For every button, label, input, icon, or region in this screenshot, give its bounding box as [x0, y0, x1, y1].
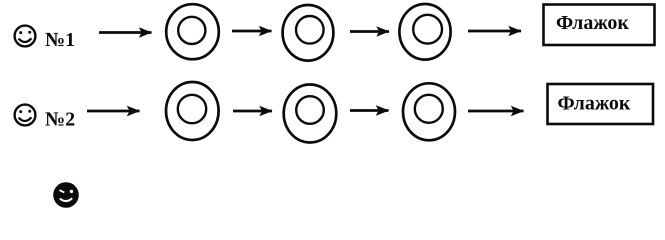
node circle row1 A: [166, 4, 219, 59]
wire arrow row2 b: [233, 110, 272, 113]
wire arrow row1 d: [468, 30, 521, 33]
wire arrow row1 c: [350, 30, 389, 33]
svg-text:Флажок: Флажок: [556, 12, 629, 34]
wire arrow row1 b: [232, 30, 272, 33]
smiley face icon row1: [15, 26, 36, 47]
wire arrow row2 a: [87, 110, 140, 113]
wire arrow row1 a: [99, 31, 152, 34]
wire arrow row2 d: [468, 110, 524, 113]
node circle row2 B: [284, 85, 337, 143]
node circle row2 A: [166, 82, 219, 140]
svg-text:№1: №1: [45, 29, 75, 51]
smiley face icon row2: [15, 105, 36, 126]
flag box row1: [544, 5, 655, 46]
node circle row2 C: [403, 83, 455, 140]
flag box row2: [548, 84, 654, 124]
svg-text:№2: №2: [45, 109, 75, 131]
wire arrow row2 c: [350, 109, 389, 112]
filled smiley bottom: [53, 182, 79, 208]
node circle row1 B: [283, 5, 334, 61]
svg-text:Флажок: Флажок: [558, 93, 631, 115]
node circle row1 C: [399, 4, 450, 60]
